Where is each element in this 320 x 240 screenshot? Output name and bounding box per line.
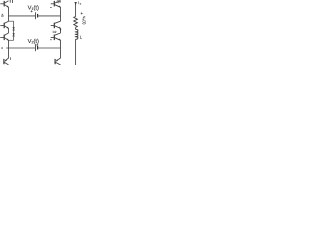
inductor L load xyxy=(76,29,78,39)
minus sign V2 xyxy=(50,39,52,41)
battery V2 long plate xyxy=(35,44,37,51)
wire clamp chain xyxy=(13,21,15,40)
wire clamp chain top stub xyxy=(9,20,14,22)
wire xyxy=(38,47,61,49)
plus sign V2 xyxy=(36,44,38,46)
wire load bottom xyxy=(75,39,77,65)
wire right rail upper xyxy=(60,7,62,21)
transistor Q8 (right leg, bottom, pnp) xyxy=(55,58,60,65)
transistor Q5 (right leg, top) xyxy=(51,1,61,8)
svg-text:o: o xyxy=(80,3,82,6)
battery V1 long plate xyxy=(35,12,37,19)
svg-text:vo(t): vo(t) xyxy=(82,16,88,25)
battery V2 short plate xyxy=(37,46,39,50)
svg-text:δ: δ xyxy=(1,13,4,18)
wire right rail lower xyxy=(60,40,62,58)
transistor Q6 (right leg, second) xyxy=(51,21,61,29)
transistor Q4 (left leg, bottom, pnp) xyxy=(4,58,9,65)
wire left rail upper xyxy=(8,7,10,21)
transistor Q3 (left leg, third) xyxy=(0,33,9,41)
svg-text:V2(t): V2(t) xyxy=(28,38,39,45)
minus sign V1 xyxy=(50,6,52,8)
wire xyxy=(38,15,61,17)
wire output 2 xyxy=(6,47,35,49)
wire load top xyxy=(75,4,77,17)
svg-text:V1(t): V1(t) xyxy=(28,5,39,12)
wire xyxy=(75,27,77,29)
diode D1 (clamp, left leg) xyxy=(13,27,15,29)
resistor R load xyxy=(74,17,78,28)
label Q4 tick xyxy=(10,57,12,60)
label S11 (cropped) xyxy=(10,0,12,3)
current arrow io xyxy=(74,2,77,5)
svg-text:L: L xyxy=(80,35,83,40)
svg-text:D2: D2 xyxy=(53,30,57,34)
diode D2 (clamp, left leg) xyxy=(13,33,15,35)
svg-text:Q5: Q5 xyxy=(57,0,61,4)
svg-text:c: c xyxy=(1,46,3,50)
wire left rail lower xyxy=(8,40,10,58)
transistor Q7 (right leg, third) xyxy=(51,33,61,41)
transistor Q2 (left leg, second) xyxy=(0,21,9,29)
wire output 1 xyxy=(9,15,36,17)
plus sign V1 xyxy=(31,10,33,12)
transistor Q1 (left leg, top) xyxy=(0,1,9,8)
wire right rail mid xyxy=(60,28,62,33)
wire clamp chain bottom stub xyxy=(9,39,14,41)
junction blob xyxy=(60,29,62,32)
wire left rail mid xyxy=(8,28,10,33)
plus sign load xyxy=(81,12,83,14)
battery V1 short plate xyxy=(37,14,39,18)
